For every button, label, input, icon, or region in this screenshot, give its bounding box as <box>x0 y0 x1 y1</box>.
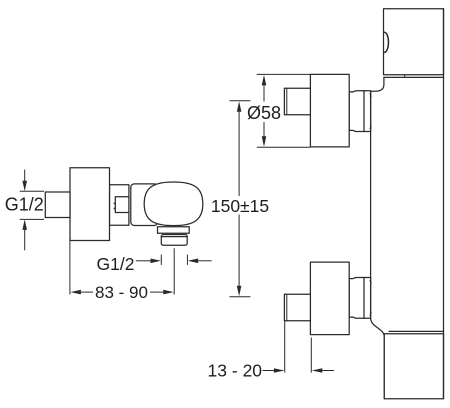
dim G1/2 wall nipple: upper arrow <box>22 181 27 192</box>
svg-text:G1/2: G1/2 <box>97 254 135 274</box>
left view: outlet flange <box>158 227 190 234</box>
dim D58: upper tick <box>257 73 311 75</box>
left view: handle knob (oval) <box>144 182 203 226</box>
right view: bottom box upper line <box>389 330 444 332</box>
dim G1/2 outlet: left leader <box>136 260 151 262</box>
dim 83-90: left extension line <box>69 241 71 295</box>
dim 13-20: right arrow <box>312 368 323 373</box>
dim 83-90: left line <box>81 291 93 293</box>
right view bottom knob: stem <box>284 294 310 321</box>
left view: outlet nipple shoulder line <box>161 236 187 238</box>
dim G1/2 wall nipple: lower arrow <box>22 219 27 230</box>
dim 150+-15: upper line <box>238 112 240 196</box>
svg-text:Ø58: Ø58 <box>247 103 281 123</box>
right view bottom knob: stem cap line <box>286 294 288 321</box>
dim D58: lower line <box>263 122 265 137</box>
dim D58: upper line <box>263 85 265 101</box>
right view top knob: stem cap line <box>286 88 288 115</box>
dim G1/2 wall nipple: lower tick <box>20 218 44 220</box>
dim 83-90: right line <box>150 291 163 293</box>
dim 13-20: right extension line <box>310 338 312 373</box>
dim 13-20: right leader <box>322 370 334 372</box>
right view: right wall edge <box>443 9 445 399</box>
right view bottom knob: escutcheon <box>349 278 370 319</box>
right view bottom knob: chamfer marks <box>370 281 371 316</box>
dim 83-90: right arrow <box>163 290 174 295</box>
dim 83-90: centerline extension <box>173 248 175 294</box>
left view: outlet nipple <box>161 235 187 246</box>
dim D58: upper arrow <box>262 75 267 86</box>
dim D58: lower tick <box>257 146 311 148</box>
right view bottom knob: base ring line <box>363 278 365 319</box>
right view top knob: escutcheon <box>349 91 370 132</box>
right view: port half-moon on box <box>384 32 388 52</box>
dim G1/2 outlet: right arrow <box>188 259 199 264</box>
dim G1/2 outlet: right leader <box>198 260 212 262</box>
dim G1/2 outlet: left extension line <box>160 255 162 265</box>
left view: valve section <box>110 185 129 225</box>
dim 150+-15: lower tick <box>230 296 251 298</box>
left view: base plate behind handle <box>131 184 158 226</box>
dim D58: lower arrow <box>262 136 267 147</box>
right view: joint double line <box>384 76 444 78</box>
svg-text:G1/2: G1/2 <box>5 195 44 215</box>
svg-text:150±15: 150±15 <box>211 196 269 216</box>
dim G1/2 wall nipple: lower leader <box>24 230 26 251</box>
dim 150+-15: lower line <box>238 215 240 287</box>
right view: body left profile <box>371 77 385 398</box>
svg-text:83 - 90: 83 - 90 <box>95 283 148 302</box>
dim 150+-15: upper tick <box>230 100 251 102</box>
dim 83-90: left arrow <box>70 290 81 295</box>
dim G1/2 wall nipple: upper tick <box>20 190 44 192</box>
left view: boss marks <box>114 203 115 209</box>
dim 150+-15: upper arrow <box>237 101 242 112</box>
right view: top supply box <box>384 9 444 75</box>
right view bottom knob: body <box>310 262 349 335</box>
dim 13-20: left leader <box>263 370 275 372</box>
dim G1/2 outlet: right extension line <box>186 255 188 265</box>
svg-text:13 - 20: 13 - 20 <box>208 361 263 381</box>
left view: wall nipple G1/2 <box>45 192 70 218</box>
right view top knob: base ring line <box>363 91 365 132</box>
right view top knob: chamfer marks <box>370 94 371 129</box>
dim G1/2 wall nipple: upper leader <box>24 170 26 181</box>
left view: small square boss <box>115 197 129 213</box>
dim 13-20: left arrow <box>274 368 285 373</box>
dim 150+-15: lower arrow <box>237 286 242 297</box>
left view: body <box>70 168 110 241</box>
dim 13-20: left extension line <box>284 321 286 373</box>
dim G1/2 outlet: left arrow <box>151 259 162 264</box>
right view: joint tick <box>404 75 406 78</box>
right view top knob: stem <box>284 88 310 115</box>
right view top knob: body <box>310 74 349 146</box>
right view: bottom outlet box <box>384 334 443 399</box>
